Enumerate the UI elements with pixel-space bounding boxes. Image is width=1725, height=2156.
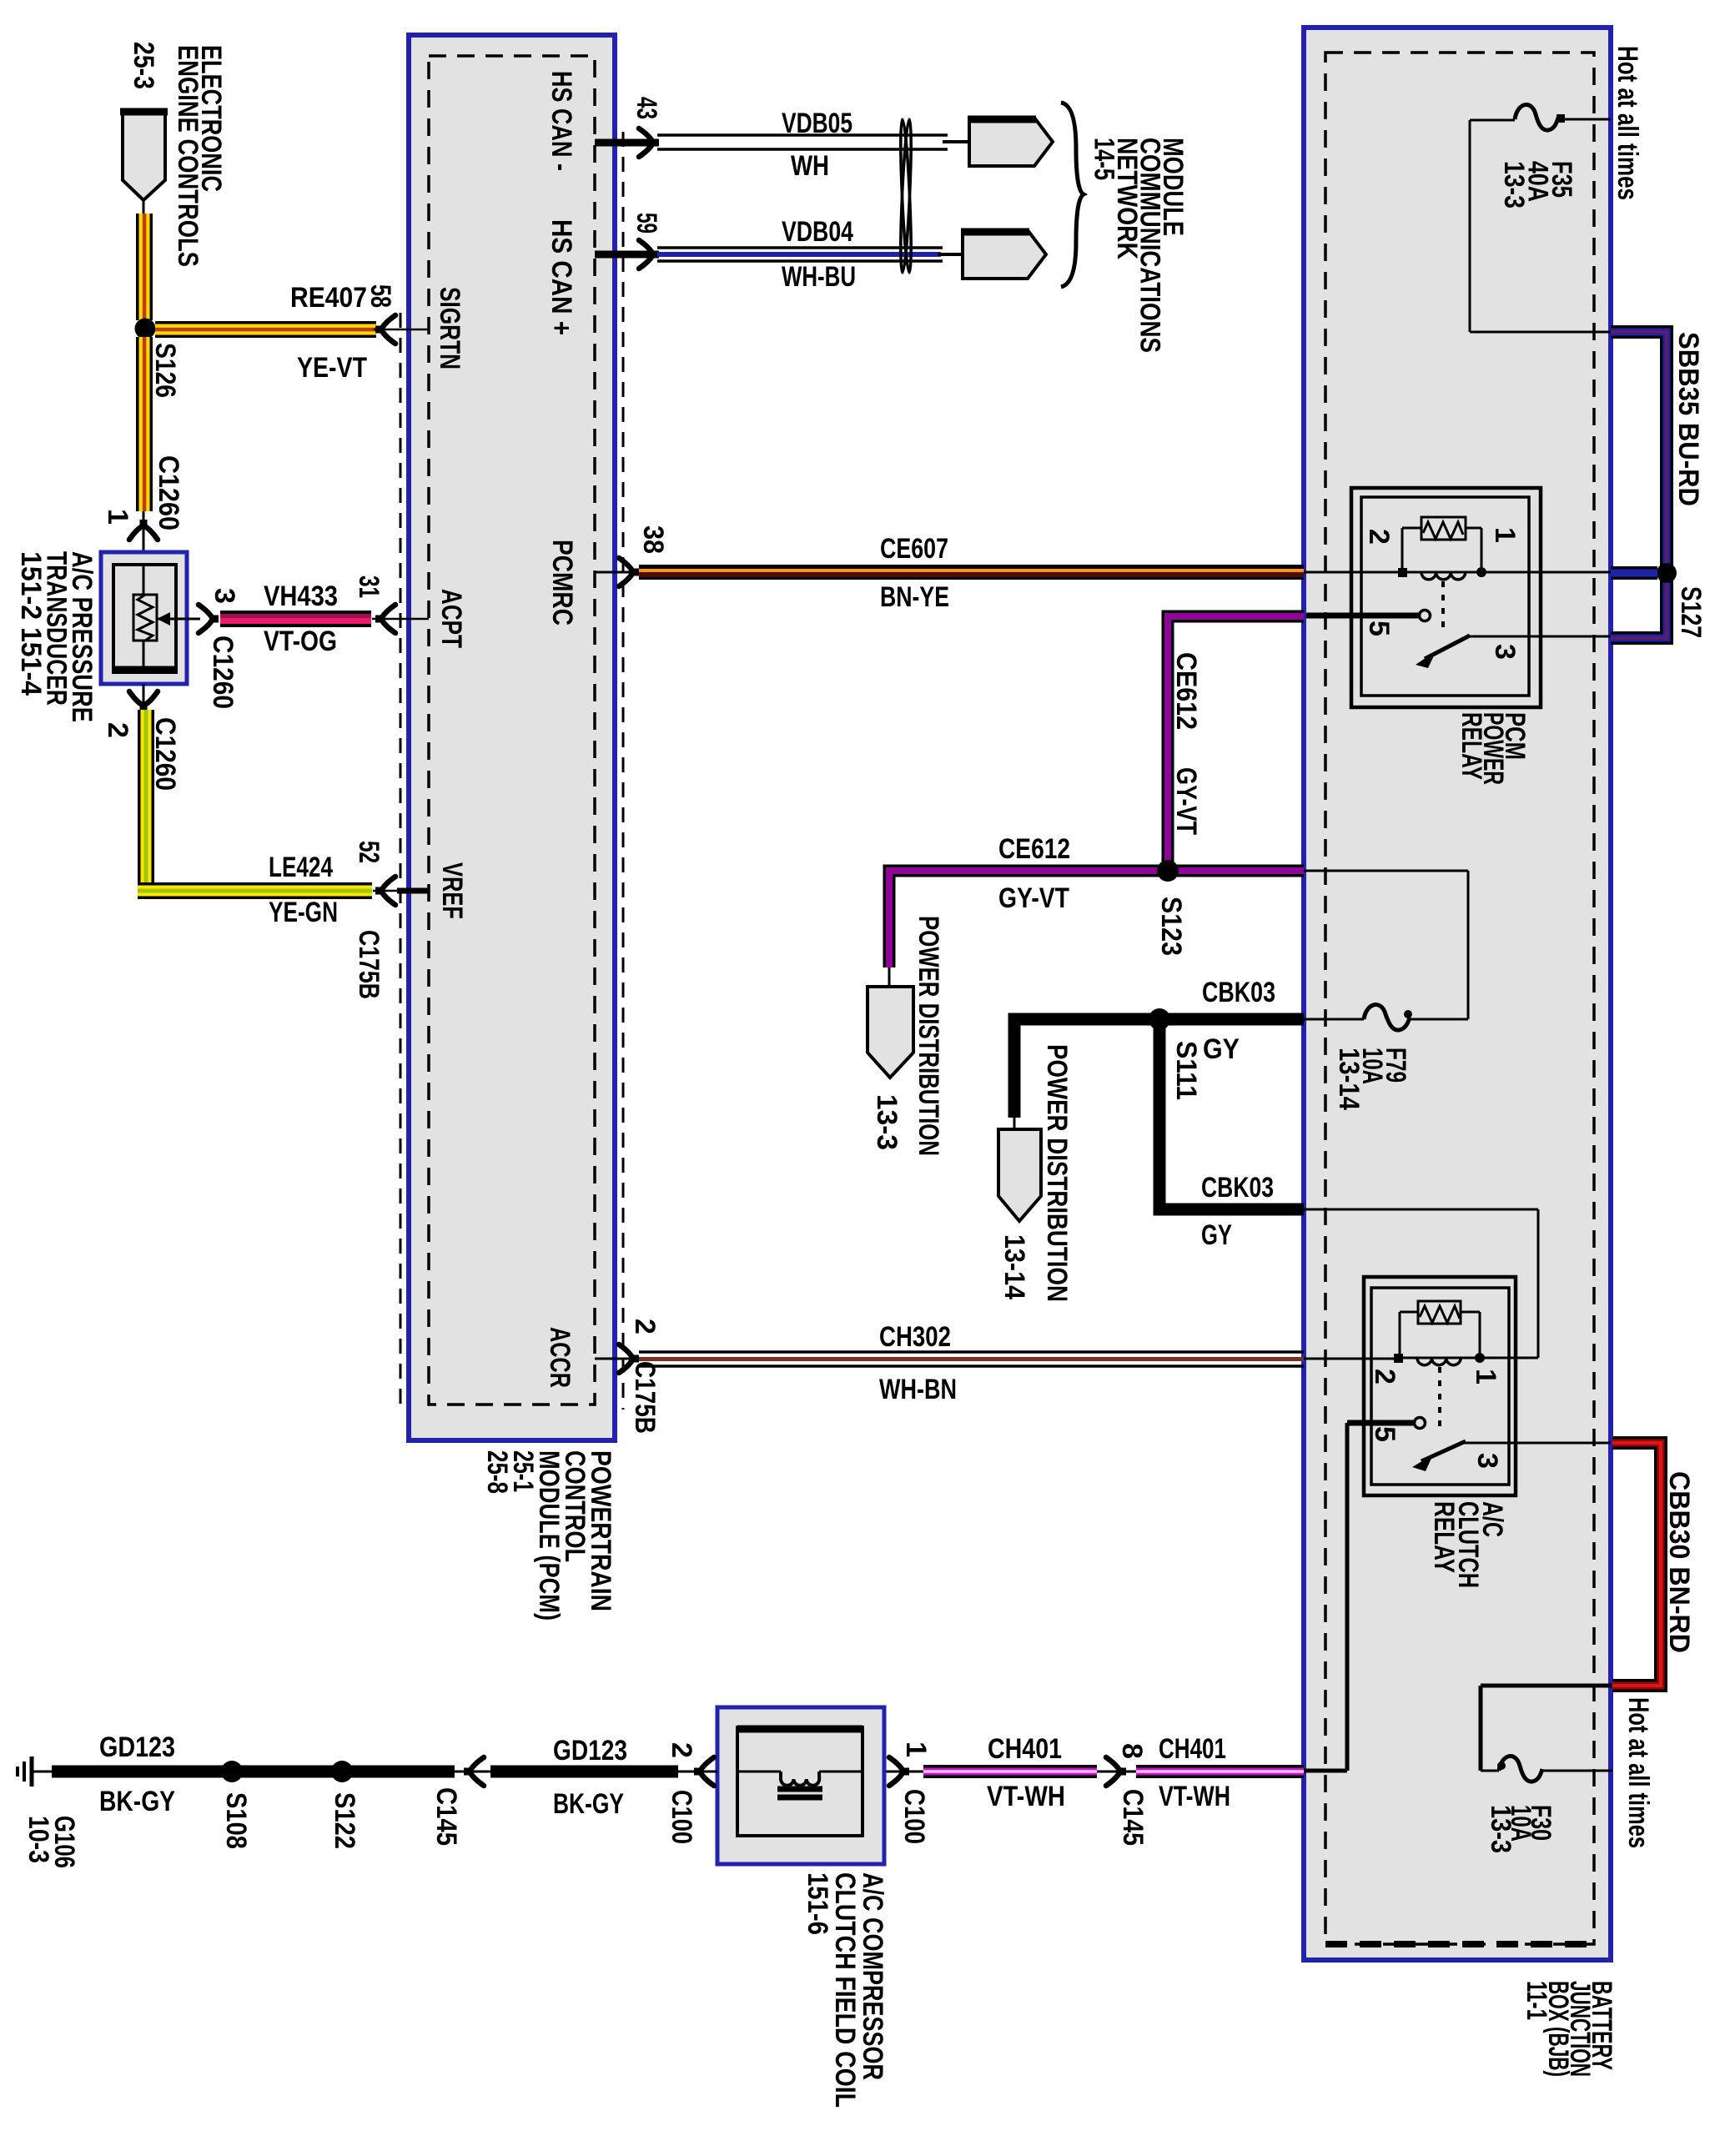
svg-text:GD123: GD123 bbox=[99, 1731, 175, 1763]
splice S126 bbox=[135, 319, 156, 339]
svg-text:1: 1 bbox=[1470, 1369, 1501, 1385]
svg-text:S108: S108 bbox=[220, 1792, 252, 1849]
svg-text:25-3: 25-3 bbox=[128, 42, 159, 89]
PCM pin label HS CAN + bbox=[546, 219, 577, 335]
label WH-BN bbox=[879, 1374, 957, 1405]
svg-text:13-14: 13-14 bbox=[998, 1234, 1030, 1299]
wire SBB35 BU-RD bbox=[1611, 332, 1667, 638]
svg-text:POWER DISTRIBUTION: POWER DISTRIBUTION bbox=[1041, 1044, 1073, 1302]
svg-text:C145: C145 bbox=[1117, 1789, 1149, 1846]
relay K1 switch armature bbox=[1416, 636, 1470, 668]
wire VDB04 WH-BU bbox=[657, 248, 964, 261]
label LE424 bbox=[269, 852, 333, 883]
label S111 bbox=[1170, 1041, 1202, 1100]
splice S111 bbox=[1149, 1008, 1170, 1030]
label 25-3 bbox=[128, 42, 159, 89]
svg-text:S123: S123 bbox=[1155, 897, 1187, 956]
label 2 (C100) bbox=[666, 1742, 697, 1758]
label CE612 (horizontal) bbox=[998, 833, 1070, 865]
label 38 bbox=[637, 525, 669, 554]
label 8 (C145) bbox=[1116, 1743, 1148, 1759]
svg-text:Hot at all times: Hot at all times bbox=[1612, 46, 1643, 200]
relay K2 pin 1 junction dot bbox=[1475, 1353, 1485, 1363]
svg-text:8: 8 bbox=[1116, 1743, 1148, 1759]
pin 1 wire into transducer bbox=[143, 511, 145, 552]
wire CBK03 GY (S111 to A/C clutch relay) bbox=[1159, 1026, 1304, 1209]
label A/C CLUTCH RELAY bbox=[1428, 1501, 1508, 1588]
svg-text:CH401: CH401 bbox=[988, 1733, 1062, 1765]
svg-text:GY: GY bbox=[1201, 1219, 1232, 1251]
relay K1 armature dashed axis bbox=[1441, 581, 1445, 632]
label PCM POWER RELAY bbox=[1456, 712, 1531, 785]
relay K2 suppression resistor bbox=[1418, 1301, 1461, 1324]
label C175B (ACCR) bbox=[629, 1361, 661, 1434]
svg-text:31: 31 bbox=[353, 575, 385, 598]
pin 2 ACCR stub bbox=[595, 1358, 630, 1360]
label C175B (pin 52) bbox=[353, 930, 385, 999]
svg-text:43: 43 bbox=[631, 97, 662, 119]
svg-text:ACCR: ACCR bbox=[544, 1327, 576, 1388]
svg-text:ENGINE CONTROLS: ENGINE CONTROLS bbox=[172, 45, 204, 267]
svg-text:2: 2 bbox=[1369, 1369, 1401, 1385]
svg-text:RELAY: RELAY bbox=[1456, 712, 1487, 780]
svg-text:CE612: CE612 bbox=[1170, 652, 1202, 730]
wire S127 stub to relay pin 1 bbox=[1611, 566, 1657, 580]
svg-text:ACPT: ACPT bbox=[435, 589, 467, 648]
svg-text:VT-WH: VT-WH bbox=[1159, 1781, 1230, 1812]
label S126 bbox=[149, 343, 181, 398]
svg-text:SIGRTN: SIGRTN bbox=[434, 287, 465, 369]
pin 2 arrow (C1260) bbox=[129, 691, 158, 711]
svg-text:WH-BU: WH-BU bbox=[782, 261, 856, 293]
BJB bottom heavy dashed line bbox=[1325, 1941, 1594, 1947]
splice S127 bbox=[1657, 563, 1677, 583]
label G106 10-3 bbox=[23, 1816, 80, 1868]
label S127 bbox=[1675, 586, 1707, 638]
svg-text:WH-BN: WH-BN bbox=[879, 1374, 957, 1405]
label C1260 (pin 2) bbox=[149, 717, 181, 791]
svg-text:C100: C100 bbox=[666, 1790, 697, 1844]
label CH302 bbox=[879, 1321, 951, 1353]
svg-text:C175B: C175B bbox=[353, 930, 385, 999]
svg-text:VDB05: VDB05 bbox=[782, 108, 852, 139]
svg-text:2: 2 bbox=[1363, 529, 1395, 545]
inductor L1 clutch coil bbox=[777, 1772, 822, 1797]
label S123 bbox=[1155, 897, 1187, 956]
wire CH302 inside BJB to relay 2 pin 2 bbox=[1304, 1358, 1394, 1360]
wire CE612 S123 to BJB bbox=[1173, 865, 1304, 877]
svg-text:GY-VT: GY-VT bbox=[998, 882, 1069, 914]
module U1 PCM box (POWERTRAIN CONTROL MODULE) bbox=[409, 35, 615, 1440]
label A/C PRESSURE TRANSDUCER bbox=[15, 551, 98, 722]
label 1 (C100) bbox=[900, 1741, 932, 1757]
transducer inner box thick bottom edge bbox=[113, 666, 176, 674]
svg-text:2: 2 bbox=[102, 722, 133, 738]
wire LE424 YE-GN vertical bbox=[138, 710, 154, 882]
splice S108 bbox=[221, 1761, 243, 1782]
wire YE-VT vertical lower (S126 to C1260 pin 1) bbox=[136, 337, 153, 511]
relay K1 PCM power relay outer box bbox=[1351, 488, 1541, 707]
pin 2 ACCR arrow bbox=[619, 1344, 639, 1373]
pin 31 arrow bbox=[375, 605, 395, 633]
transducer internal lead bottom bbox=[143, 641, 145, 672]
wire VH433 VT-OG (transducer to PCM pin 31) bbox=[220, 611, 371, 627]
pin arrow C145 (GD123) bbox=[455, 1757, 490, 1786]
label CH401 (right) bbox=[1159, 1733, 1226, 1765]
pin 8 arrow C145 bbox=[1097, 1757, 1136, 1786]
ground G106 bbox=[18, 1756, 53, 1787]
svg-text:WH: WH bbox=[791, 150, 829, 182]
label Hot at all times (bottom) bbox=[1622, 1697, 1654, 1848]
svg-text:151-2 151-4: 151-2 151-4 bbox=[15, 551, 47, 696]
pin 52 arrow bbox=[375, 877, 395, 905]
svg-text:RELAY: RELAY bbox=[1428, 1501, 1460, 1573]
label CH401 (left) bbox=[988, 1733, 1062, 1765]
wire YE-VT vertical upper (EEC to S126) bbox=[136, 214, 153, 320]
label VT-WH (right) bbox=[1159, 1781, 1230, 1812]
label S122 bbox=[329, 1792, 360, 1849]
component A/C compressor clutch field coil outer box bbox=[717, 1707, 884, 1864]
label VT-OG bbox=[264, 626, 337, 657]
wire CE612 GY-VT (S123 to power distribution) bbox=[889, 871, 1163, 967]
relay K2 pin 2 terminal square bbox=[1394, 1354, 1403, 1363]
label GY-VT (vertical) bbox=[1170, 767, 1202, 835]
svg-text:3: 3 bbox=[1489, 644, 1521, 660]
svg-text:YE-GN: YE-GN bbox=[269, 897, 338, 928]
svg-text:BK-GY: BK-GY bbox=[553, 1788, 624, 1820]
svg-text:VDB04: VDB04 bbox=[782, 216, 853, 248]
label 52 bbox=[353, 841, 385, 863]
wire relay K2 pin 5 to BJB exit bbox=[1304, 1423, 1347, 1771]
label 2 (ACCR) bbox=[629, 1319, 661, 1334]
wire LE424 YE-GN horizontal bbox=[138, 882, 372, 899]
label POWER DISTRIBUTION 1 bbox=[913, 916, 944, 1156]
wire CBK03 GY (BJB to S111 to PD2) bbox=[1014, 1019, 1304, 1118]
svg-text:HS CAN -: HS CAN - bbox=[546, 71, 577, 171]
wire CH302 WH-BN bbox=[639, 1352, 1304, 1366]
svg-text:Hot at all times: Hot at all times bbox=[1622, 1697, 1654, 1848]
label CBB30 BN-RD bbox=[1663, 1471, 1695, 1653]
svg-text:58: 58 bbox=[365, 284, 396, 308]
PCM pin label PCMRC bbox=[546, 540, 578, 626]
label 58 bbox=[365, 284, 396, 308]
connector arrow network pentagon 2 bbox=[961, 230, 1046, 279]
label C145 (pin 8) bbox=[1117, 1789, 1149, 1846]
wire CBB30 BN-RD bbox=[1612, 1443, 1661, 1686]
fuse F79 10A bbox=[1304, 1005, 1468, 1031]
connector arrow POWER DISTRIBUTION 2 bbox=[998, 1129, 1041, 1221]
connector arrow network pentagon 1 bbox=[968, 118, 1053, 166]
label GD123 (left) bbox=[99, 1731, 175, 1763]
label VT-WH (left) bbox=[987, 1781, 1065, 1812]
relay K1 coil bbox=[1421, 572, 1466, 580]
splice S123 bbox=[1157, 860, 1179, 882]
relay K2 A/C clutch relay outer box bbox=[1364, 1277, 1516, 1495]
label GY-VT (horizontal) bbox=[998, 882, 1069, 914]
label Hot at all times (top) bbox=[1612, 46, 1643, 200]
PCM inner dashed boundary bbox=[429, 56, 595, 1405]
relay K2 pin 5 wire bbox=[1347, 1420, 1414, 1426]
svg-text:1: 1 bbox=[102, 509, 133, 525]
relay K1 pin 1 wire to BJB edge bbox=[1481, 571, 1611, 574]
svg-text:59: 59 bbox=[631, 213, 662, 234]
label MODULE COMMUNICATIONS NETWORK 14-5 bbox=[1089, 138, 1189, 353]
connector arrow ELECTRONIC ENGINE CONTROLS bbox=[120, 110, 168, 200]
label BN-YE bbox=[880, 581, 949, 613]
label YE-VT (RE407) bbox=[297, 352, 367, 384]
wire CE612 inside BJB top loop bbox=[1304, 870, 1468, 872]
label RE407 bbox=[290, 282, 367, 314]
label BJB name block bbox=[1521, 1981, 1617, 2077]
relay K2 pin 5 contact circle bbox=[1415, 1418, 1426, 1429]
PCM pin label ACCR bbox=[544, 1327, 576, 1388]
svg-text:13-3: 13-3 bbox=[871, 1094, 903, 1150]
svg-text:38: 38 bbox=[637, 525, 669, 554]
svg-text:C175B: C175B bbox=[629, 1361, 661, 1434]
wire CH401 VT-WH (C100 to C145) bbox=[923, 1765, 1097, 1778]
relay K1 inner box bbox=[1361, 497, 1529, 696]
clutch coil wire through bbox=[737, 1771, 862, 1773]
pin 38 stub bbox=[595, 571, 630, 574]
label VDB04 bbox=[782, 216, 853, 248]
svg-text:5: 5 bbox=[1369, 1426, 1401, 1442]
svg-text:CBK03: CBK03 bbox=[1201, 1172, 1274, 1204]
brace MODULE COMMUNICATIONS NETWORK bbox=[1061, 103, 1084, 287]
pin 59 stub bbox=[595, 251, 650, 259]
svg-text:CH401: CH401 bbox=[1159, 1733, 1226, 1765]
fuse F30 10A bbox=[1481, 1756, 1612, 1782]
label CBK03 (upper) bbox=[1202, 977, 1275, 1008]
svg-text:BK-GY: BK-GY bbox=[99, 1786, 175, 1817]
label 31 bbox=[353, 575, 385, 598]
wire CE607 BN-YE (PCM pin 38 to BJB) bbox=[639, 565, 1304, 580]
svg-text:CH302: CH302 bbox=[879, 1321, 951, 1353]
svg-text:VH433: VH433 bbox=[264, 580, 338, 612]
clutch coil inner box bbox=[737, 1727, 862, 1836]
label 2 (C1260) bbox=[102, 722, 133, 738]
wire VDB05 WH (double line) bbox=[657, 135, 971, 149]
label C1260 (pin 3) bbox=[207, 636, 239, 709]
label YE-GN bbox=[269, 897, 338, 928]
connector C175B dashed line left of PCM bbox=[400, 313, 402, 1410]
relay K1 suppression resistor bbox=[1421, 517, 1466, 540]
wire RE407 YE-VT horizontal (S126 to PCM pin 58) bbox=[155, 321, 376, 338]
wire F35 loop bbox=[1470, 120, 1611, 332]
clutch coil inner box thick top edge bbox=[737, 1726, 862, 1733]
svg-text:GY-VT: GY-VT bbox=[1170, 767, 1202, 835]
wire F30 feed inside BJB bbox=[1481, 1686, 1612, 1771]
label ELECTRONIC ENGINE CONTROLS bbox=[172, 45, 227, 267]
svg-text:S111: S111 bbox=[1170, 1041, 1202, 1100]
pin 58 arrow bbox=[375, 315, 395, 344]
splice S122 bbox=[331, 1761, 353, 1782]
svg-text:C100: C100 bbox=[898, 1789, 930, 1844]
svg-text:VT-OG: VT-OG bbox=[264, 626, 337, 657]
transducer wiper lead to pin 3 bbox=[157, 612, 200, 626]
svg-text:5: 5 bbox=[1363, 621, 1395, 636]
pin 58 stub bbox=[374, 329, 429, 331]
relay K2 label 3 bbox=[1471, 1453, 1503, 1469]
transducer internal lead top bbox=[143, 565, 145, 595]
wire CE612 GY-VT (relay pin5 to S123) bbox=[1168, 616, 1304, 866]
label 13-14 (PD2) bbox=[998, 1234, 1030, 1299]
pin 59 arrow bbox=[639, 240, 659, 269]
wire CE607 inside BJB to relay pin 2 bbox=[1304, 571, 1398, 574]
svg-text:S127: S127 bbox=[1675, 586, 1707, 638]
label C100 (pin 2) bbox=[666, 1790, 697, 1844]
wire CH401 VT-WH (BJB to C145) bbox=[1136, 1765, 1304, 1778]
label CE607 bbox=[880, 533, 948, 565]
relay K1 coil line bbox=[1406, 571, 1477, 574]
svg-text:RE407: RE407 bbox=[290, 282, 367, 314]
resistor R1 (transducer element) bbox=[133, 595, 157, 641]
label A/C COMPRESSOR CLUTCH FIELD COIL 151-6 bbox=[802, 1872, 888, 2108]
svg-text:BN-YE: BN-YE bbox=[880, 581, 949, 613]
svg-text:3: 3 bbox=[1471, 1453, 1503, 1469]
svg-text:S126: S126 bbox=[149, 343, 181, 398]
svg-text:1: 1 bbox=[1489, 527, 1521, 543]
svg-text:14-5: 14-5 bbox=[1089, 138, 1120, 180]
pin 2 arrow C100 bbox=[678, 1757, 717, 1786]
label BK-GY (left) bbox=[99, 1786, 175, 1817]
label C100 (pin 1) bbox=[898, 1789, 930, 1844]
svg-text:13-3: 13-3 bbox=[1498, 161, 1530, 209]
svg-text:13-14: 13-14 bbox=[1333, 1048, 1365, 1110]
relay K1 resistor legs bbox=[1402, 528, 1481, 568]
relay K2 coil bbox=[1417, 1358, 1461, 1365]
wire CBK03 inside BJB bbox=[1304, 1209, 1538, 1358]
svg-text:YE-VT: YE-VT bbox=[297, 352, 367, 384]
module BJB box (BATTERY JUNCTION BOX) bbox=[1304, 28, 1611, 1960]
label VDB05 bbox=[782, 108, 852, 139]
svg-text:151-6: 151-6 bbox=[802, 1872, 833, 1935]
label 59 bbox=[631, 213, 662, 234]
BJB inner dashed boundary bbox=[1325, 53, 1594, 1944]
connector dashed line right of PCM bbox=[622, 132, 625, 1410]
svg-text:1: 1 bbox=[900, 1741, 932, 1757]
label C1260 (pin 1) bbox=[153, 455, 184, 530]
relay K2 resistor legs bbox=[1400, 1312, 1480, 1354]
pin 52 stub bbox=[373, 890, 429, 892]
wire GD123 BK-GY (C100 to C145) bbox=[490, 1766, 678, 1778]
pin 1 arrow C100 bbox=[884, 1757, 923, 1786]
relay K1 pin 5 contact circle bbox=[1420, 611, 1431, 621]
svg-text:VREF: VREF bbox=[436, 862, 468, 919]
pin 3 arrow (C1260) bbox=[199, 605, 219, 633]
svg-text:CE612: CE612 bbox=[998, 833, 1070, 865]
relay K2 armature dashed axis bbox=[1438, 1367, 1441, 1428]
svg-text:10-3: 10-3 bbox=[23, 1816, 54, 1863]
wire F79 vertical bbox=[1467, 871, 1470, 1019]
pin 1 arrow (C1260) bbox=[129, 520, 158, 540]
label WH bbox=[791, 150, 829, 182]
pin 43 stub bbox=[595, 139, 650, 147]
label F35 40A 13-3 bbox=[1498, 161, 1577, 209]
label GY (lower) bbox=[1201, 1219, 1232, 1251]
svg-text:SBB35 BU-RD: SBB35 BU-RD bbox=[1672, 332, 1704, 506]
svg-text:3: 3 bbox=[209, 588, 240, 604]
svg-text:HS CAN +: HS CAN + bbox=[546, 219, 577, 335]
relay K2 pin 1 wire bbox=[1480, 1357, 1538, 1359]
transducer inner box bbox=[113, 565, 176, 672]
label VH433 bbox=[264, 580, 338, 612]
relay K1 pin 5 wire bbox=[1306, 613, 1419, 619]
svg-text:VT-WH: VT-WH bbox=[987, 1781, 1065, 1812]
label GD123 (right) bbox=[553, 1735, 627, 1767]
pin 31 stub bbox=[372, 618, 429, 621]
label GY (upper) bbox=[1203, 1033, 1240, 1065]
label 43 bbox=[631, 97, 662, 119]
svg-text:CBB30 BN-RD: CBB30 BN-RD bbox=[1663, 1471, 1695, 1653]
svg-text:C1260: C1260 bbox=[153, 455, 184, 530]
pin 2 wire out of transducer bbox=[143, 684, 145, 711]
relay K1 pin 2 terminal square bbox=[1398, 568, 1407, 577]
wire stub to power distribution 1 bbox=[888, 967, 891, 988]
component A/C pressure transducer outer box bbox=[101, 552, 187, 684]
PCM pin label ACPT bbox=[435, 589, 467, 648]
pin 43 arrow bbox=[639, 128, 659, 157]
relay K1 label 5 bbox=[1363, 621, 1395, 636]
svg-text:13-3: 13-3 bbox=[1485, 1805, 1516, 1853]
fuse F35 40A bbox=[1470, 105, 1611, 131]
label PCM name block bbox=[481, 1450, 616, 1621]
relay K1 label 2 bbox=[1363, 529, 1395, 545]
label F79 10A 13-14 bbox=[1333, 1048, 1411, 1110]
svg-text:CE607: CE607 bbox=[880, 533, 948, 565]
svg-text:S122: S122 bbox=[329, 1792, 360, 1849]
label CBK03 (lower) bbox=[1201, 1172, 1274, 1204]
relay K2 inner box bbox=[1371, 1288, 1509, 1485]
svg-text:C1260: C1260 bbox=[207, 636, 239, 709]
svg-text:25-8: 25-8 bbox=[481, 1450, 513, 1494]
svg-text:GD123: GD123 bbox=[553, 1735, 627, 1767]
svg-text:11-1: 11-1 bbox=[1521, 1981, 1552, 2020]
relay K2 coil line bbox=[1402, 1357, 1476, 1359]
svg-text:LE424: LE424 bbox=[269, 852, 333, 883]
wire GD123 BK-GY (ground to C145) bbox=[52, 1766, 455, 1778]
svg-text:2: 2 bbox=[666, 1742, 697, 1758]
svg-text:POWER DISTRIBUTION: POWER DISTRIBUTION bbox=[913, 916, 944, 1156]
svg-text:52: 52 bbox=[353, 841, 385, 863]
PCM pin label HS CAN - bbox=[546, 71, 577, 171]
label POWER DISTRIBUTION 2 bbox=[1041, 1044, 1073, 1302]
wire stub to power distribution 2 bbox=[1013, 1118, 1016, 1131]
label S108 bbox=[220, 1792, 252, 1849]
label 1 (C1260) bbox=[102, 509, 133, 525]
relay K2 label 5 bbox=[1369, 1426, 1401, 1442]
label 13-3 (PD1) bbox=[871, 1094, 903, 1150]
twisted pair symbol bbox=[898, 119, 913, 273]
label C145 (GD123) bbox=[430, 1787, 462, 1846]
label 3 (C1260) bbox=[209, 588, 240, 604]
label SBB35 BU-RD bbox=[1672, 332, 1704, 506]
svg-text:PCMRC: PCMRC bbox=[546, 540, 578, 626]
relay K2 label 1 bbox=[1470, 1369, 1501, 1385]
relay K2 switch armature bbox=[1412, 1441, 1466, 1471]
pin 38 arrow bbox=[619, 558, 639, 586]
svg-text:C145: C145 bbox=[430, 1787, 462, 1846]
wire stub below EEC connector bbox=[143, 200, 145, 215]
svg-text:CBK03: CBK03 bbox=[1202, 977, 1275, 1008]
relay K1 pin 3 wire bbox=[1466, 636, 1611, 638]
relay K1 label 3 bbox=[1489, 644, 1521, 660]
label CE612 (vertical) bbox=[1170, 652, 1202, 730]
label WH-BU bbox=[782, 261, 856, 293]
relay K1 pin 1 junction dot bbox=[1476, 567, 1486, 577]
label BK-GY (right) bbox=[553, 1788, 624, 1820]
svg-text:2: 2 bbox=[629, 1319, 661, 1334]
label F30 10A 13-3 bbox=[1485, 1805, 1557, 1853]
